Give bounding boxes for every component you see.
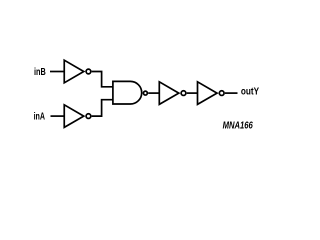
wire inverter 4 output to outY <box>225 92 238 94</box>
wire inB to inverter 1 <box>50 71 64 73</box>
svg-text:MNA166: MNA166 <box>223 121 254 132</box>
inverter 4 <box>198 82 225 105</box>
NAND gate <box>113 81 147 104</box>
wire inverter 2 output to NAND bottom input <box>92 100 113 116</box>
wire NAND output to inverter 3 <box>148 92 159 94</box>
wire inverter 3 to inverter 4 <box>187 92 198 94</box>
inverter 3 <box>159 82 186 105</box>
svg-text:inB: inB <box>34 66 46 78</box>
wire inA to inverter 2 <box>51 115 65 117</box>
svg-text:inA: inA <box>34 110 46 122</box>
inverter 2 (inA) <box>64 105 91 128</box>
inverter 1 (inB) <box>64 60 91 83</box>
wire inverter 1 output to NAND top input <box>92 72 113 87</box>
svg-text:outY: outY <box>241 86 259 98</box>
